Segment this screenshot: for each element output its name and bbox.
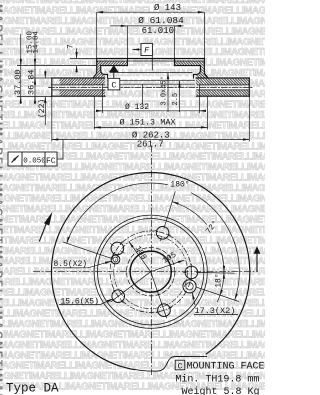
arc dim 72deg [218,242,224,272]
svg-text:Ø 132: Ø 132 [125,103,149,112]
arc dim 180deg [191,193,239,300]
arc dim 18deg [217,296,219,302]
hub pilot circle [127,248,175,296]
svg-text:Ø 61.084: Ø 61.084 [138,15,184,26]
short ext line x142.5 [142,84,144,104]
vertical centerline [151,146,153,376]
svg-text:MAGNETIMARELLIMAGNETIMARELLIMA: MAGNETIMARELLIMAGNETIMARELLIMAGNETIMAREL… [0,58,265,69]
radial arrow 108 bolt circle [129,242,151,272]
rotation direction arrow [39,212,52,242]
far side chamfer lines through hat opening [108,73,195,85]
svg-text:Ø 143: Ø 143 [154,3,181,13]
svg-text:MAGNETIMARELLIMAGNETIMARELLIMA: MAGNETIMARELLIMAGNETIMARELLIMAGNETIMAREL… [0,141,265,152]
stud hole 3 [112,290,125,303]
svg-text:MARELLIMAGNETIMARELLIMAGNETIMA: MARELLIMAGNETIMARELLIMAGNETIMARELLIMAGNE… [0,4,4,395]
circle phi151.3 [94,215,207,328]
feature control frame runout 0.050 FC [8,140,63,167]
svg-text:Type DA: Type DA [6,381,59,395]
bolt circle dash-dot [110,231,191,312]
section dimension texts [13,3,184,150]
ext line phi143 left [96,12,98,58]
svg-text:C: C [177,361,182,371]
hatch right hat wall [196,66,208,78]
svg-text:8.5(X2): 8.5(X2) [54,260,88,269]
ext radial stud E [198,272,235,275]
svg-text:FC: FC [46,157,56,166]
ext line phi143 right [203,12,205,58]
ext line bore right (up) [174,26,176,59]
stud hole 5 [185,266,198,279]
vent strip line upper [52,84,250,86]
mounting face surfaces [101,65,201,67]
ext line phi132 left [102,84,104,113]
hatch left hat wall [93,66,105,78]
center bore circle [130,251,171,292]
svg-text:0.050: 0.050 [23,157,46,165]
vent centerline dash-dot [49,86,253,88]
hatch left flange [97,61,128,66]
svg-text:3.0x45°: 3.0x45° [160,76,169,105]
flange rim secondary line [97,60,205,62]
svg-text:MAGNETIMARELLIMAGNETIMARELLIMA: MAGNETIMARELLIMAGNETIMARELLIMAGNETIMAREL… [0,194,265,205]
band outline right edge [248,78,250,96]
right rotation direction arrow [254,246,261,271]
mounting face note [175,360,264,395]
svg-text:MAGNETIMARELLIMAGNETIMARELLIMA: MAGNETIMARELLIMAGNETIMARELLIMAGNETIMAREL… [0,350,265,361]
radial line to hole 4 [151,272,167,317]
svg-text:Ø 151.3 MAX: Ø 151.3 MAX [119,118,175,128]
band top edges [52,77,250,79]
dim line (22) band thickness [44,71,46,79]
ext line phi151 right [207,96,209,130]
svg-text:MAGNETIMARELLIMAGNETIMARELLIMA: MAGNETIMARELLIMAGNETIMARELLIMAGNETIMAREL… [0,319,265,330]
ext line disc edge right (down) [248,96,250,141]
dim line 37.00 / 15.00 [20,34,22,103]
svg-text:18°: 18° [214,273,223,287]
hat wall outer left with shoulder [93,59,97,79]
horizontal centerline [33,271,258,273]
small holes circle dash-dot [114,235,188,309]
hatch right flange [175,61,205,66]
hatch band left bottom strip [60,90,106,96]
hole 17.3 right [183,280,196,293]
svg-text:261.7: 261.7 [137,140,164,150]
hat wall outer right with shoulder [204,59,208,79]
radial arrow 105 [151,260,185,272]
leader 8.5 [53,261,112,268]
svg-text:17.3(X2): 17.3(X2) [195,306,236,316]
svg-text:MAGNETIMARELLIMAGNETIMARELLIMA: MAGNETIMARELLIMAGNETIMARELLIMAGNETIMAREL… [0,225,265,236]
svg-text:14.84: 14.84 [33,30,41,53]
dim line phi61 [110,25,184,27]
svg-text:7: 7 [67,44,76,49]
small hole 8.5 left [111,255,120,264]
svg-text:Min. TH19.8 mm: Min. TH19.8 mm [175,374,259,386]
svg-text:36.84: 36.84 [27,69,37,95]
short centerline below F box [151,56,153,70]
outer disc circle (bottom-right replaced by step boundary) [51,173,249,370]
svg-text:(22): (22) [38,99,47,118]
hatch band right top strip [196,78,249,85]
svg-text:180°: 180° [170,181,189,190]
ext radial 17.3 hole [197,287,239,301]
ext line bore left (up) [126,26,128,59]
svg-text:MAGNETIMARELLIMAGNETIMARELLIMA: MAGNETIMARELLIMAGNETIMARELLIMAGNETIMAREL… [0,329,265,340]
band outline left edge [51,78,53,96]
svg-text:37.00: 37.00 [13,69,23,95]
bore edge left [126,59,128,66]
ext line disc edge left (down) [51,96,53,141]
ext line band bottom left [17,96,52,98]
dim 2.5 [179,81,181,112]
vent strip line lower [52,89,250,91]
step boundary line [135,356,207,371]
ext line phi151 left [93,96,95,130]
ext line band top left [31,77,52,79]
datum F box and leader [133,43,153,55]
hat wall inner right profile [194,66,201,78]
stud hole 4 [158,304,171,317]
ext line phi132 right [199,84,201,113]
svg-text:MOUNTING FACE: MOUNTING FACE [187,362,265,373]
svg-text:MAGNETIMARELLIMAGNETIMARELLIMA: MAGNETIMARELLIMAGNETIMARELLIMAGNETIMAREL… [0,267,265,278]
leader 17.3 [192,293,238,315]
hat wall inner left profile [101,66,108,78]
dim 3.0x45 chamfer [167,73,169,112]
dim line 36.84 / 14.84 [34,34,36,103]
dim line phi151.3 MAX [94,126,207,128]
left edge cropped dark logo letters [0,4,4,395]
ext line mounting face left [17,65,97,67]
dim line phi132 [96,110,206,112]
stud hole 1 [156,227,169,240]
svg-text:MAGNETIMARELLIMAGNETIMARELLIMA: MAGNETIMARELLIMAGNETIMARELLIMAGNETIMAREL… [0,246,265,257]
hatch band right bottom strip [197,90,250,96]
svg-text:Weight 5.8 Kg: Weight 5.8 Kg [182,386,260,395]
bore edge right [174,59,176,66]
ext radial stud A for 72 [165,191,176,226]
svg-text:C: C [111,80,116,90]
svg-text:2.5: 2.5 [172,93,180,106]
leader 15.6 [59,299,113,305]
radial line to hole 3 [110,272,150,302]
svg-text:MAGNETIMARELLIMAGNETIMARELLIMA: MAGNETIMARELLIMAGNETIMARELLIMAGNETIMAREL… [0,16,265,27]
band bottom edges [52,95,250,97]
hatch band left top strip [60,78,105,85]
flange top surface [97,58,205,60]
svg-text:F: F [144,46,150,56]
svg-text:15.6(X5): 15.6(X5) [61,297,99,306]
hat circle phi143 [98,219,204,325]
svg-text:MAGNETIMARELLIMAGNETIMARELLIMA: MAGNETIMARELLIMAGNETIMARELLIMAGNETIMAREL… [0,340,265,351]
dim line phi262.3 [52,139,250,141]
stud hole 2 [111,242,124,255]
ext line flange top left [70,58,97,60]
ext radial 8.5 hole for 180 [63,242,111,258]
svg-text:61.010: 61.010 [142,26,174,36]
dim line phi143 [97,11,205,13]
dim 7 flange thickness [76,49,78,59]
svg-text:MAGNETIMARELLIMAGNETIMARELLIMA: MAGNETIMARELLIMAGNETIMARELLIMAGNETIMAREL… [0,5,265,16]
plan view texts [54,181,236,317]
datum C triangle and box [108,66,120,90]
